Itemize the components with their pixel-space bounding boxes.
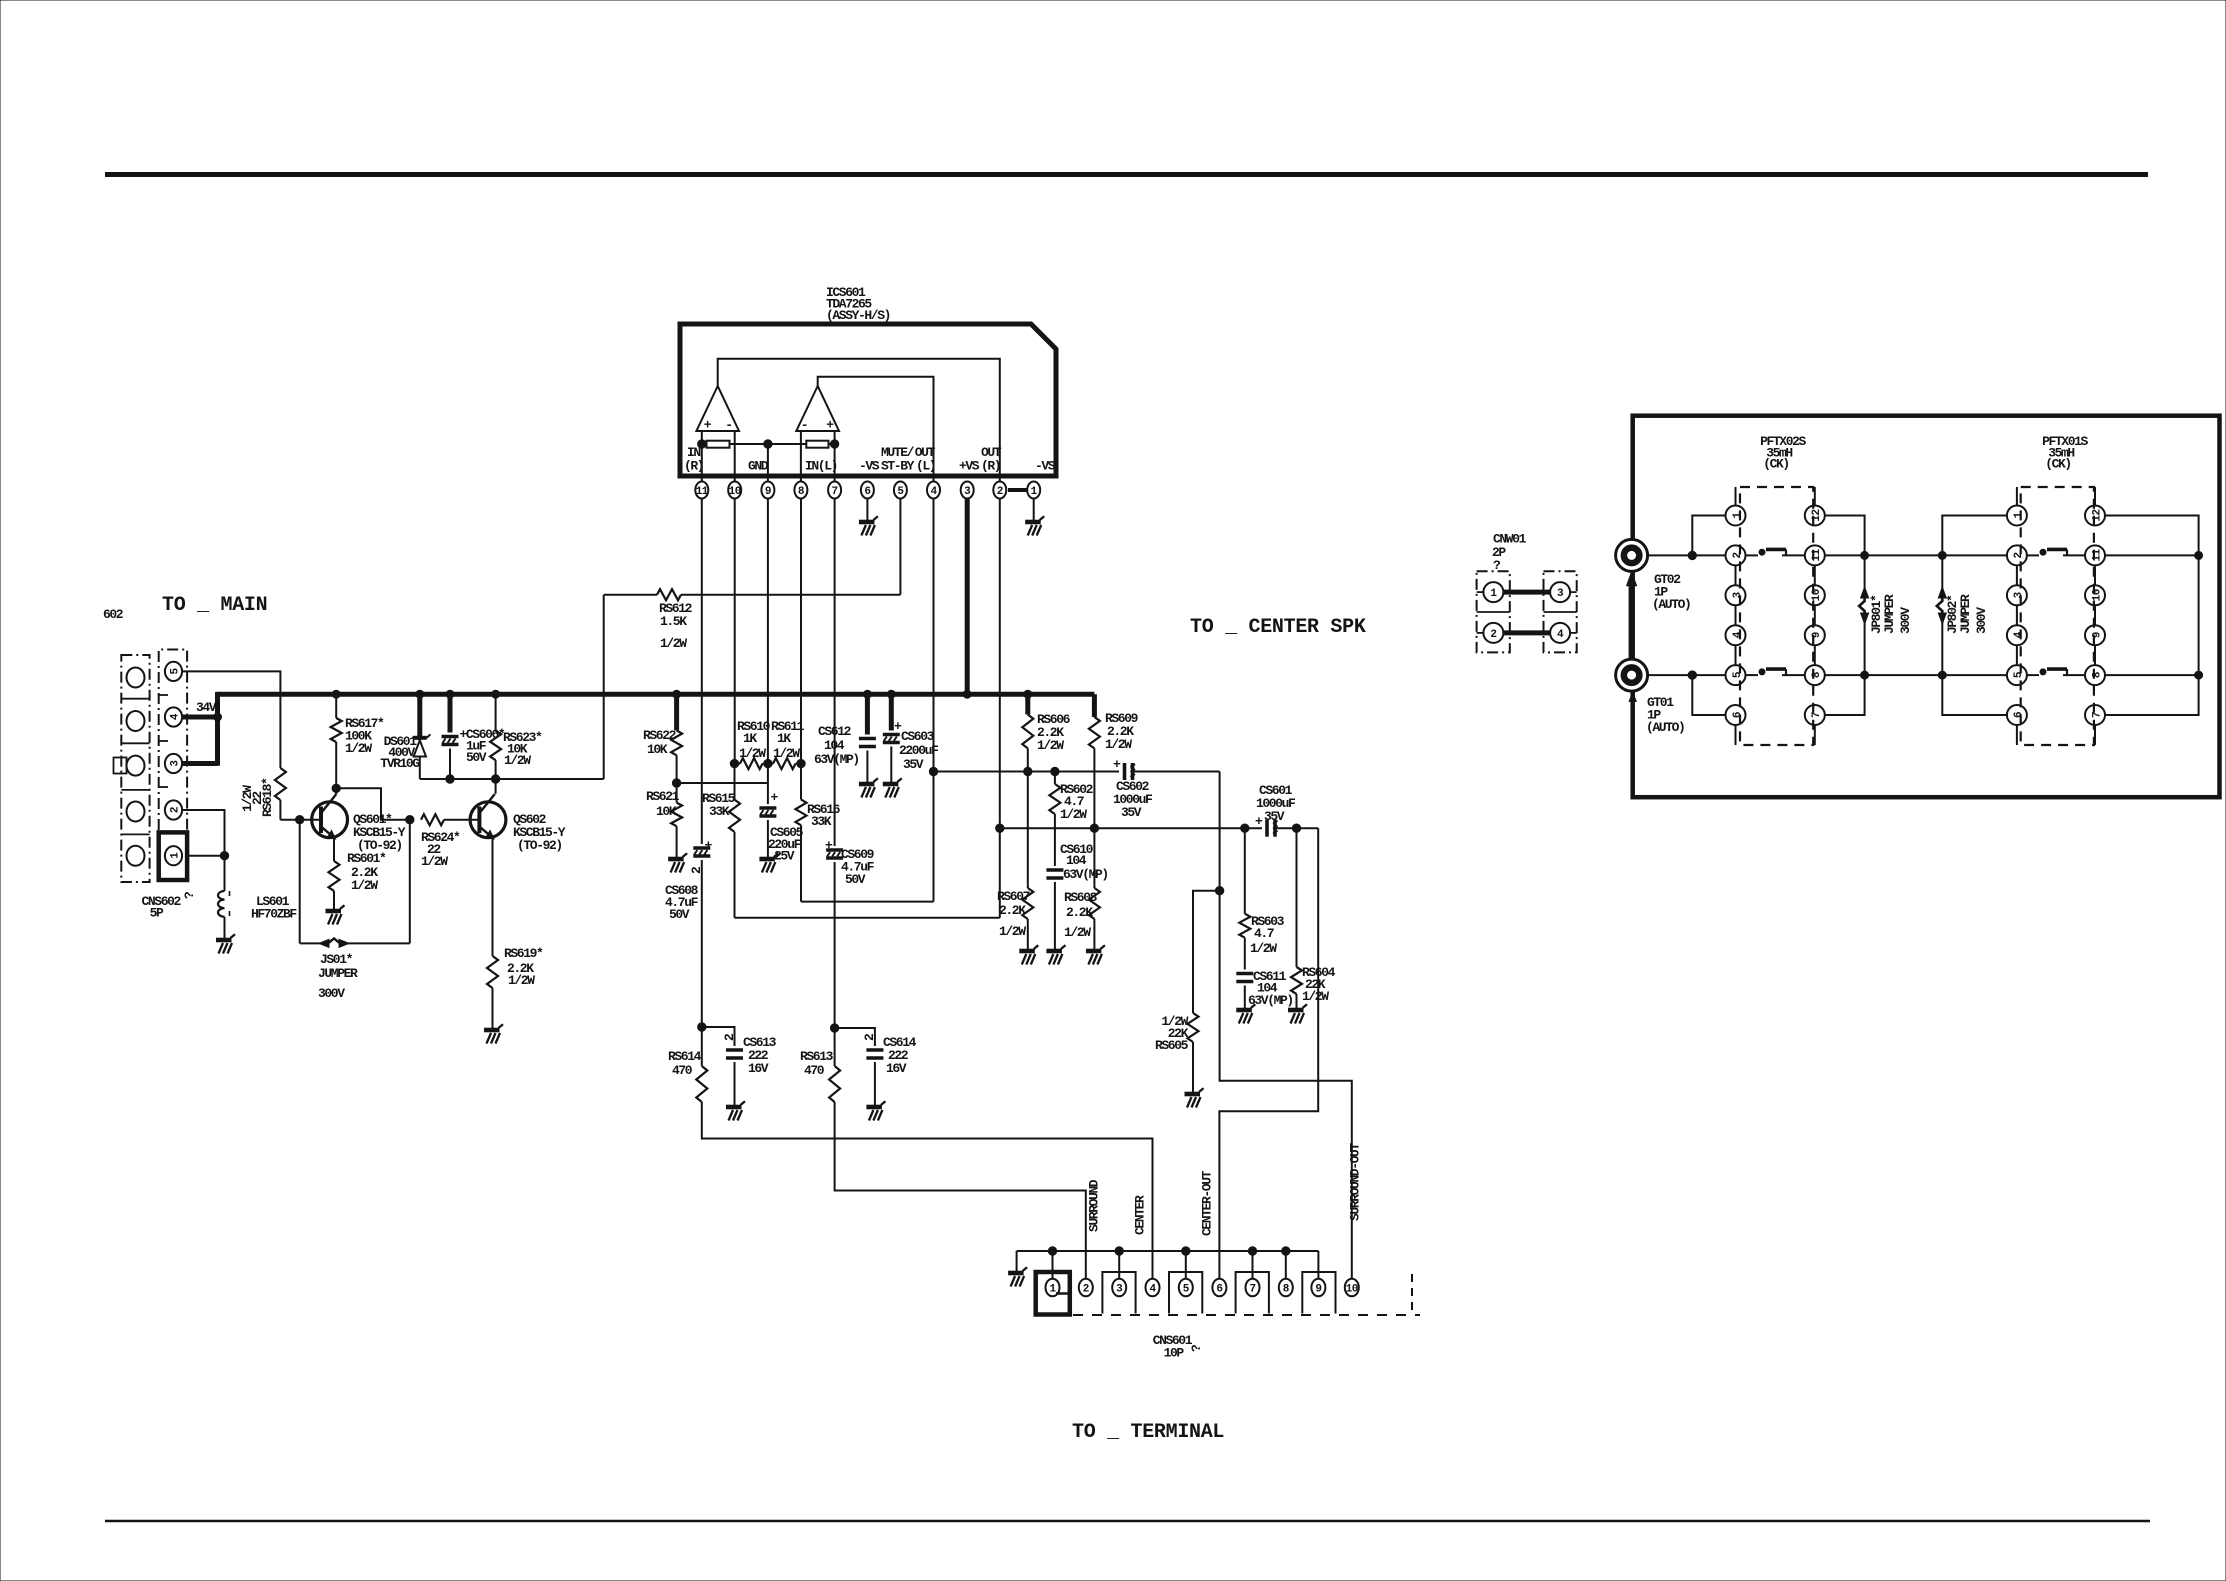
transformer PFTX02S pin 12 elbow xyxy=(1825,516,1865,556)
wire pin11 column IN(R) xyxy=(701,499,703,845)
ground under CS603 xyxy=(883,778,902,797)
wire CNS602 pin4 to bus (thick) xyxy=(182,715,218,720)
svg-text:1/2W: 1/2W xyxy=(773,746,800,761)
wire pin2 OUT(R) column xyxy=(999,499,1001,918)
connector CNS602 pin 1 xyxy=(165,846,182,865)
pin 7 of ICS601 xyxy=(828,482,841,499)
resistor RS621 xyxy=(676,783,678,803)
wire 34V thick bus xyxy=(218,692,1095,697)
resistor RS623 xyxy=(495,694,497,730)
wire PFTX01S pin11 to right link xyxy=(2105,554,2199,556)
svg-text:(ASSY-H/S): (ASSY-H/S) xyxy=(826,308,890,323)
wire CNS601 ground bus xyxy=(1017,1250,1319,1252)
svg-text:2: 2 xyxy=(2013,552,2025,558)
svg-text:+: + xyxy=(1255,814,1263,829)
svg-text:RS619*: RS619* xyxy=(504,946,543,961)
svg-text:TO _ TERMINAL: TO _ TERMINAL xyxy=(1072,1421,1224,1444)
svg-text:300V: 300V xyxy=(318,986,345,1001)
svg-text:?: ? xyxy=(1189,1344,1204,1352)
svg-text:GND: GND xyxy=(748,459,769,474)
svg-text:10: 10 xyxy=(2091,589,2103,601)
resistor RS605 xyxy=(1188,1013,1199,1042)
wire pin9 column GND xyxy=(767,499,769,784)
svg-text:JS01*: JS01* xyxy=(320,952,353,967)
capacitor CS614 xyxy=(835,1028,875,1046)
capacitor CS610 xyxy=(1046,870,1063,878)
node RS610 left xyxy=(730,759,738,767)
svg-text:(L): (L) xyxy=(916,459,935,474)
svg-text:1/2W: 1/2W xyxy=(1037,738,1064,753)
connector CNS601 bracket over pin 9 xyxy=(1302,1272,1335,1314)
wire CNW01 1-3 (thick) xyxy=(1504,590,1551,595)
wire op-amp B + input to pin 7 xyxy=(834,431,836,481)
pin 6 of ICS601 xyxy=(861,482,874,499)
connector CNW01 right box xyxy=(1544,571,1577,652)
op-amp A (right channel) triangle xyxy=(696,386,739,431)
node OUT(R) to surround tap xyxy=(996,824,1004,832)
connector CNS601 pin 4 xyxy=(1146,1279,1160,1297)
node RS624 left xyxy=(406,816,414,824)
svg-text:RS613: RS613 xyxy=(800,1049,834,1064)
svg-text:104: 104 xyxy=(1066,853,1087,868)
wire OUT(L) feedback xyxy=(801,901,934,903)
svg-text:10: 10 xyxy=(1346,1283,1358,1295)
connector CNS602 outer pin circle xyxy=(127,802,145,822)
svg-text:1/2W: 1/2W xyxy=(1105,737,1132,752)
svg-text:50V: 50V xyxy=(669,907,690,922)
svg-text:5: 5 xyxy=(1183,1283,1190,1295)
switch contact xyxy=(1759,549,1765,555)
svg-text:RS622: RS622 xyxy=(643,728,677,743)
svg-text:2: 2 xyxy=(1490,629,1496,641)
ground under CS614 xyxy=(866,1101,885,1120)
transformer PFTX01S pin 3 xyxy=(2007,585,2027,605)
svg-text:1/2W: 1/2W xyxy=(1064,925,1091,940)
transformer PFTX02S dashed box xyxy=(1740,487,1813,745)
capacitor CS613 xyxy=(702,1027,735,1046)
ground under LS601 xyxy=(216,934,235,953)
node RS602 top xyxy=(1051,767,1059,775)
svg-text:8: 8 xyxy=(2091,671,2103,678)
wire standby rail DS601-CS606-RS623 to RS612 xyxy=(420,778,604,780)
svg-text:33K: 33K xyxy=(709,804,730,819)
resistor RS616 xyxy=(796,800,807,826)
transformer PFTX02S pin 12 xyxy=(1805,506,1825,526)
connector CNS602 pin 2 xyxy=(165,800,182,819)
pin 8 of ICS601 xyxy=(794,482,807,499)
svg-text:3: 3 xyxy=(964,486,971,498)
svg-text:4: 4 xyxy=(169,713,181,720)
svg-text:6: 6 xyxy=(1732,712,1744,718)
switch contact xyxy=(2040,669,2046,675)
svg-text:1: 1 xyxy=(169,852,181,859)
svg-text:RS618*: RS618* xyxy=(260,778,275,817)
connector CNS601 dashed right edge xyxy=(1411,1274,1413,1310)
svg-text:10K: 10K xyxy=(656,804,677,819)
capacitor CS603 (thick stub) xyxy=(889,694,894,730)
svg-text:-: - xyxy=(801,418,807,433)
wire CNW01 2-4 (thick) xyxy=(1504,630,1551,635)
ground at pin 6 xyxy=(859,516,878,535)
node QS601 base xyxy=(296,816,304,824)
wire right link vertical xyxy=(2198,555,2200,675)
ground at CNS601 xyxy=(1008,1267,1027,1286)
node RS610/RS611 centre xyxy=(764,759,772,767)
svg-text:63V(MP): 63V(MP) xyxy=(1063,867,1108,882)
svg-text:CENTER-OUT: CENTER-OUT xyxy=(1200,1170,1215,1236)
svg-text:?: ? xyxy=(182,891,197,899)
wire GT02 row xyxy=(1648,554,1726,556)
svg-text:TVR10G: TVR10G xyxy=(380,756,420,771)
transformer PFTX02S pin 2 xyxy=(1726,545,1746,565)
wire surround-out drop xyxy=(1220,772,1352,1280)
node RS603 top xyxy=(1241,824,1249,832)
capacitor CS605 (to ground) xyxy=(767,783,769,804)
ground under CS610 xyxy=(1046,945,1065,964)
ground under CS613 xyxy=(726,1101,745,1120)
transformer PFTX01S pin 12 xyxy=(2085,506,2105,526)
wire GT01-GT02 thick with arrow xyxy=(1629,583,1635,660)
node IN(R) junction xyxy=(698,440,706,448)
svg-text:50V: 50V xyxy=(845,872,866,887)
connector CNS601 bracket over pin 7 xyxy=(1236,1272,1269,1314)
wire RS608 column xyxy=(1093,828,1095,888)
connector CNS602 mounting tab xyxy=(114,758,127,774)
resistor RS601 xyxy=(329,861,340,891)
connector CNW01 left box xyxy=(1477,571,1510,652)
wire CNS602 pin5 to RS618 xyxy=(182,671,280,768)
transformer PFTX01S pin 2 xyxy=(2007,545,2027,565)
transformer PFTX02S pin 7 elbow xyxy=(1825,675,1865,715)
svg-text:-VS: -VS xyxy=(859,459,880,474)
jumper JP801 with arrows xyxy=(1864,555,1866,589)
svg-text:ST-BY: ST-BY xyxy=(881,459,915,474)
node RS606 bottom xyxy=(1024,767,1032,775)
svg-text:25V: 25V xyxy=(774,849,795,864)
pin 5 of ICS601 xyxy=(894,482,907,499)
svg-text:IN(L): IN(L) xyxy=(805,459,837,474)
capacitor CS611 xyxy=(1236,974,1253,982)
svg-text:6: 6 xyxy=(1216,1283,1222,1295)
resistor RS610 xyxy=(740,758,763,769)
wire RS615 column xyxy=(734,764,736,800)
svg-text:4.7: 4.7 xyxy=(1254,926,1274,941)
resistor RS606 (thick stub) xyxy=(1025,694,1030,714)
wire center-out drop xyxy=(1219,828,1318,1279)
svg-text:RS607: RS607 xyxy=(997,889,1030,904)
wire pin5 to pin8 with switch xyxy=(1746,674,1759,676)
connector CNS602 pin 5 xyxy=(165,662,182,681)
terminal GT02 xyxy=(1616,539,1648,571)
svg-text:(AUTO): (AUTO) xyxy=(1652,597,1690,612)
svg-text:602: 602 xyxy=(103,607,124,622)
transformer PFTX01S pin 4 xyxy=(2007,625,2027,645)
svg-text:1/2W: 1/2W xyxy=(345,741,372,756)
ground under RS607 xyxy=(1019,945,1038,964)
svg-text:4: 4 xyxy=(1149,1283,1156,1295)
transformer PFTX01S pin 12 elbow xyxy=(2105,516,2199,556)
connector CNS601 bracket over pin 5 xyxy=(1169,1272,1202,1314)
svg-text:1/2W: 1/2W xyxy=(739,746,766,761)
ground under CS611 xyxy=(1236,1004,1255,1023)
svg-text:HF70ZBF: HF70ZBF xyxy=(251,907,297,922)
thick link pin2-pin1 xyxy=(1008,488,1027,492)
svg-text:2: 2 xyxy=(1732,552,1744,558)
capacitor CS606 (thick stub from bus) xyxy=(448,694,453,732)
transformer PFTX02S pin 1 xyxy=(1726,506,1746,526)
svg-text:2.2K: 2.2K xyxy=(1066,905,1093,920)
transformer PFTX01S pin 7 elbow xyxy=(2105,675,2199,715)
wire op-amp A + input to pin 11 xyxy=(701,431,703,481)
wire op-amp A - input to pin 10 xyxy=(734,431,736,481)
wire QS602 emitter down xyxy=(492,839,494,956)
svg-text:7: 7 xyxy=(832,486,838,498)
svg-text:1: 1 xyxy=(2013,512,2025,519)
wire pin 1 to ground xyxy=(1033,499,1035,521)
node ground bus pin 7 xyxy=(1248,1247,1256,1255)
svg-text:2: 2 xyxy=(169,807,181,813)
svg-text:10K: 10K xyxy=(647,742,668,757)
connector CNS602 outer pin circle xyxy=(127,846,145,866)
wire RS607 column xyxy=(1027,772,1029,889)
node GND junction xyxy=(764,440,772,448)
transformer PFTX02S pin 6 xyxy=(1726,705,1746,725)
wire op-amp A output to pin 2 xyxy=(718,359,1000,481)
connector CNS601 pin 1 xyxy=(1046,1279,1060,1297)
enclosure box (transformers) xyxy=(1633,416,2220,798)
connector CNS601 bracket over pin 3 xyxy=(1102,1272,1135,1314)
connector CNW01 pin 3 xyxy=(1550,582,1570,602)
svg-text:8: 8 xyxy=(1283,1283,1290,1295)
svg-text:5: 5 xyxy=(169,667,181,674)
wire GND node to pin 9 xyxy=(767,444,769,481)
wire pin10 column xyxy=(734,499,736,764)
node QS601 collector xyxy=(332,784,340,792)
wire pin8 to PFTX01S pin5 xyxy=(1825,674,2007,676)
jumper JS01 with arrows xyxy=(299,820,301,944)
wire GT01 row xyxy=(1648,674,1726,676)
wire OUT(R) feedback xyxy=(735,917,1000,919)
transformer PFTX02S pin 1 elbow xyxy=(1692,516,1725,556)
svg-text:50V: 50V xyxy=(466,750,487,765)
transistor QS602 KSC815-Y xyxy=(470,794,506,839)
svg-text:1/2W: 1/2W xyxy=(508,973,535,988)
bottom border rule xyxy=(105,1520,2150,1523)
svg-text:16V: 16V xyxy=(886,1061,907,1076)
transformer PFTX01S pin 6 xyxy=(2007,705,2027,725)
wire pin4 OUT(L) column xyxy=(933,499,935,902)
wire pin11 to PFTX01S pin2 xyxy=(1825,554,2007,556)
connector CNS602 outer pin circle xyxy=(127,756,145,776)
capacitor CS608 (series) xyxy=(693,838,712,856)
svg-text:104: 104 xyxy=(824,738,845,753)
svg-text:9: 9 xyxy=(1811,632,1823,638)
connector CNS602 outer pin circle xyxy=(127,668,145,688)
svg-text:11: 11 xyxy=(2091,548,2103,561)
svg-text:5: 5 xyxy=(2013,671,2025,678)
ground under RS604 xyxy=(1288,1004,1307,1023)
connector CNS602 pin 3 xyxy=(165,754,182,773)
top border rule xyxy=(105,172,2148,177)
node ground bus pin 1 xyxy=(1048,1247,1056,1255)
transformer PFTX01S winding links xyxy=(2016,487,2018,506)
transformer PFTX01S pin 7 xyxy=(2085,705,2105,725)
svg-text:CENTER: CENTER xyxy=(1133,1195,1148,1235)
resistor RS615 xyxy=(729,800,740,832)
svg-text:8: 8 xyxy=(798,486,805,498)
pin 9 of ICS601 xyxy=(761,482,774,499)
pin 10 of ICS601 xyxy=(728,482,741,499)
ground under RS619 xyxy=(484,1024,503,1043)
svg-text:470: 470 xyxy=(804,1063,825,1078)
node RS604 top xyxy=(1292,824,1300,832)
svg-text:RS608: RS608 xyxy=(1064,890,1098,905)
svg-text:+: + xyxy=(1113,757,1121,772)
svg-text:35V: 35V xyxy=(903,757,924,772)
transformer PFTX02S pin 10 xyxy=(1805,585,1825,605)
svg-text:6: 6 xyxy=(2013,712,2025,718)
capacitor CS601 (series, horizontal) xyxy=(1255,814,1278,837)
svg-text:TO _ CENTER SPK: TO _ CENTER SPK xyxy=(1190,616,1366,639)
connector CNS601 pin 9 xyxy=(1311,1279,1325,1297)
node bus 34V entry xyxy=(214,713,222,721)
ground under CS605 xyxy=(759,853,778,872)
connector CNS601 pin 3 xyxy=(1112,1279,1126,1297)
transformer PFTX02S winding links xyxy=(1735,487,1737,506)
resistor RS619 xyxy=(487,956,498,988)
op-amp B (left channel) triangle xyxy=(796,386,839,431)
svg-text:1/2W: 1/2W xyxy=(1250,941,1277,956)
wire PFTX01S pin5 to pin8 with switch xyxy=(2027,674,2039,676)
svg-text:-VS: -VS xyxy=(1035,459,1056,474)
transformer PFTX01S pin 11 xyxy=(2085,545,2105,565)
svg-text:10: 10 xyxy=(729,486,741,498)
resistor RS613 xyxy=(834,1028,836,1066)
svg-text:9: 9 xyxy=(2091,632,2103,638)
svg-text:1: 1 xyxy=(1732,512,1744,519)
svg-text:5: 5 xyxy=(1732,671,1744,678)
svg-text:11: 11 xyxy=(696,486,709,498)
svg-text:RS601*: RS601* xyxy=(347,851,386,866)
svg-text:7: 7 xyxy=(2091,712,2103,718)
node RS609 bottom xyxy=(1090,824,1098,832)
node RS614/CS613 junction xyxy=(698,1023,706,1031)
svg-text:(TO-92): (TO-92) xyxy=(517,838,562,853)
ground under RS608 xyxy=(1086,945,1105,964)
svg-text:4: 4 xyxy=(2013,631,2025,638)
connector CNW01 pin 4 xyxy=(1550,623,1570,643)
svg-text:35V: 35V xyxy=(1121,805,1142,820)
node ground bus pin 5 xyxy=(1182,1247,1190,1255)
wire pin2 to pin11 with switch xyxy=(1746,554,1759,556)
transformer PFTX01S dashed box xyxy=(2021,487,2094,745)
svg-text:1K: 1K xyxy=(777,731,791,746)
connector CNW01 pin 1 xyxy=(1483,582,1503,602)
pin 1 emphasis box CNS601 xyxy=(1036,1272,1070,1315)
transformer PFTX02S pin 11 xyxy=(1805,545,1825,565)
resistor RS609 (thick stub) xyxy=(1092,694,1097,717)
svg-text:1.5K: 1.5K xyxy=(660,614,687,629)
internal resistor left xyxy=(707,441,730,448)
svg-text:SURROUND-OUT: SURROUND-OUT xyxy=(1348,1143,1363,1221)
svg-text:1/2W: 1/2W xyxy=(421,854,448,869)
ground under RS621 xyxy=(668,853,687,872)
connector CNS602 pin 4 xyxy=(165,707,182,726)
connector CNS601 pin 10 xyxy=(1345,1279,1359,1297)
node OUT(L) to center tap xyxy=(929,767,937,775)
svg-text:1K: 1K xyxy=(743,731,757,746)
svg-text:1/2W: 1/2W xyxy=(504,753,531,768)
svg-text:4: 4 xyxy=(930,486,937,498)
svg-text:1: 1 xyxy=(1049,1283,1056,1295)
pin 2 of ICS601 xyxy=(993,482,1006,499)
wire CNS602 pin1 right xyxy=(187,855,224,857)
svg-text:3: 3 xyxy=(1557,588,1564,600)
svg-text:10: 10 xyxy=(1811,589,1823,601)
wire CENTER line xyxy=(702,1102,1153,1279)
svg-text:(CK): (CK) xyxy=(1763,457,1789,472)
svg-text:5: 5 xyxy=(897,486,904,498)
node IN(L) + input junction xyxy=(830,440,838,448)
switch contact xyxy=(2040,549,2046,555)
svg-text:1/2W: 1/2W xyxy=(1302,989,1329,1004)
op-amp U ICS601 TDA7265 outline xyxy=(680,324,1056,476)
transformer PFTX01S pin 6 elbow xyxy=(1942,675,2007,715)
wire CNW01 pin stubs xyxy=(1477,591,1484,593)
resistor RS618 xyxy=(275,768,286,800)
svg-text:TO _ MAIN: TO _ MAIN xyxy=(162,594,267,617)
svg-text:(R): (R) xyxy=(981,459,1000,474)
capacitor CS612 (thick stub) xyxy=(865,694,870,734)
jumper JP802 with arrows xyxy=(1941,555,1943,589)
pin 4 of ICS601 xyxy=(927,482,940,499)
svg-text:300V: 300V xyxy=(1898,607,1913,634)
connector CNS601 pin 6 xyxy=(1212,1279,1226,1297)
svg-text:12: 12 xyxy=(2091,509,2103,521)
svg-text:10P: 10P xyxy=(1164,1346,1185,1361)
svg-text:1/2W: 1/2W xyxy=(999,924,1026,939)
resistor RS622 (thick stub) xyxy=(674,694,679,730)
wire CNS602 pin2 down xyxy=(182,810,225,856)
wire center rail y=771 xyxy=(934,771,1120,773)
svg-text:4: 4 xyxy=(1732,631,1744,638)
node RS611 right xyxy=(797,759,805,767)
svg-text:63V(MP): 63V(MP) xyxy=(814,752,859,767)
svg-text:9: 9 xyxy=(1315,1283,1321,1295)
svg-text:2: 2 xyxy=(997,486,1003,498)
svg-text:9: 9 xyxy=(765,486,771,498)
svg-text:8: 8 xyxy=(1811,671,1823,678)
resistor RS614 xyxy=(701,1027,703,1066)
resistor RS617 xyxy=(335,694,337,718)
resistor RS603 xyxy=(1244,828,1246,914)
wire pin8 column xyxy=(800,499,802,800)
svg-text:300V: 300V xyxy=(1974,607,1989,634)
transformer PFTX01S pin 1 xyxy=(2007,506,2027,526)
svg-text:(CK): (CK) xyxy=(2045,457,2071,472)
pin 3 of ICS601 xyxy=(961,482,974,499)
svg-text:+: + xyxy=(771,790,779,805)
connector CNS601 dashed underline xyxy=(1073,1314,1420,1316)
wire ground bus to pin 9 xyxy=(1317,1251,1319,1279)
node RS613/CS614 junction xyxy=(830,1024,838,1032)
svg-text:12: 12 xyxy=(1811,509,1823,521)
node LS601 top xyxy=(220,852,228,860)
capacitor CS609 (series) xyxy=(825,838,843,858)
svg-text:470: 470 xyxy=(672,1063,693,1078)
svg-text:1/2W: 1/2W xyxy=(660,636,687,651)
transformer PFTX02S pin 3 xyxy=(1726,585,1746,605)
